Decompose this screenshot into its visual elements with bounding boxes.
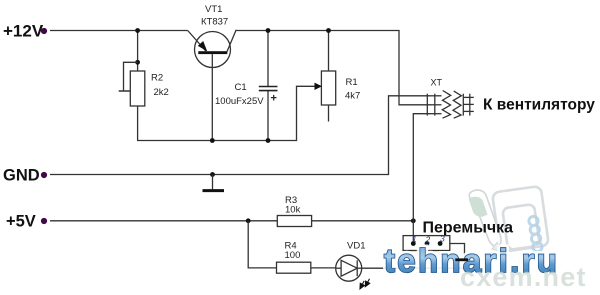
junction dot rail/R2 [135, 28, 140, 33]
resistor R1 body [321, 71, 335, 105]
transistor VT1 [188, 30, 237, 68]
wire jumper pin1 lead [412, 221, 414, 244]
wire R3 to jumper [312, 220, 414, 222]
junction dot base/bottom rail [210, 138, 215, 143]
VD1 emission arrows [360, 279, 370, 289]
wire GND rail to XT top pin [50, 96, 431, 175]
svg-text:10k: 10k [285, 205, 301, 216]
svg-text:R1: R1 [346, 77, 358, 88]
wire +12V rail [50, 30, 188, 32]
svg-text:4k7: 4k7 [345, 91, 360, 102]
resistor R4 body [277, 262, 311, 273]
junction dot R2 wiper [135, 60, 140, 65]
connector XT zigzag contacts [442, 91, 450, 119]
connector XT right stubs [463, 96, 474, 98]
svg-text:VD1: VD1 [347, 241, 365, 252]
watermark logo notepad [492, 186, 549, 252]
wire R2 top lead [137, 31, 139, 72]
terminal dot +12V [41, 28, 47, 34]
junction dot C1/bottom rail [266, 138, 271, 143]
svg-text:Перемычка: Перемычка [423, 220, 514, 237]
wire R2 wiper [124, 62, 138, 91]
connector XT bars left [426, 94, 428, 116]
connector XT bars right [462, 94, 464, 116]
wire R1 bottom stub [328, 105, 330, 122]
watermark logo pencil [469, 190, 503, 252]
terminal dot +5V [41, 218, 47, 224]
wire +5V rail [50, 220, 277, 222]
svg-text:+5V: +5V [6, 213, 36, 231]
svg-text:100uFx25V: 100uFx25V [215, 96, 264, 107]
wire VD1 to jumper pin3 [362, 244, 465, 269]
svg-text:100: 100 [285, 250, 301, 261]
svg-text:+: + [271, 93, 277, 105]
svg-text:XT: XT [431, 78, 443, 88]
ground [212, 175, 214, 190]
wire R4 branch [248, 221, 276, 268]
junction dot rail/R1 [326, 28, 331, 33]
terminal dot GND [41, 172, 47, 178]
wire XT bottom pin lead [413, 114, 431, 221]
wire R1 top lead [328, 31, 330, 72]
junction dot R3/XT/jumper [411, 218, 416, 223]
svg-text:+12V: +12V [3, 22, 44, 41]
jumper pin 3 [438, 241, 443, 246]
junction dot ground stub [210, 172, 215, 177]
LED VD1 [336, 255, 362, 281]
svg-text:К вентилятору: К вентилятору [483, 97, 595, 114]
resistor R2 body [130, 71, 145, 106]
wire C1 top lead [267, 31, 269, 87]
R2 wiper contact bar [119, 90, 131, 92]
junction dot R4 branch [246, 218, 251, 223]
wire C1 bottom lead [267, 91, 269, 141]
svg-text:2k2: 2k2 [154, 87, 169, 98]
R1 wiper arrow [315, 83, 323, 90]
svg-text:C1: C1 [235, 82, 247, 93]
svg-text:VT1: VT1 [205, 4, 222, 15]
connector XT pin lines through [431, 95, 442, 97]
svg-text:R2: R2 [151, 73, 163, 84]
watermark text tehnari.ru [384, 242, 559, 279]
svg-text:GND: GND [3, 167, 40, 185]
svg-text:cxem.net: cxem.net [460, 262, 587, 292]
svg-text:КТ837: КТ837 [201, 17, 228, 28]
jumper pin 2 [425, 241, 430, 246]
wire VT1 base lead [211, 54, 213, 140]
wire R2 bottom lead [138, 86, 316, 140]
wire stub near watermark [455, 258, 468, 261]
junction dot rail/C1 [266, 28, 271, 33]
wire R4 to VD1 [311, 267, 336, 269]
jumper pin 1 [411, 241, 416, 246]
wire collector rail to XT middle pin [236, 31, 431, 105]
watermark logo rings [529, 216, 542, 251]
jumper block body [403, 236, 450, 251]
resistor R3 body [277, 216, 311, 227]
capacitor C1 plates [259, 86, 278, 88]
